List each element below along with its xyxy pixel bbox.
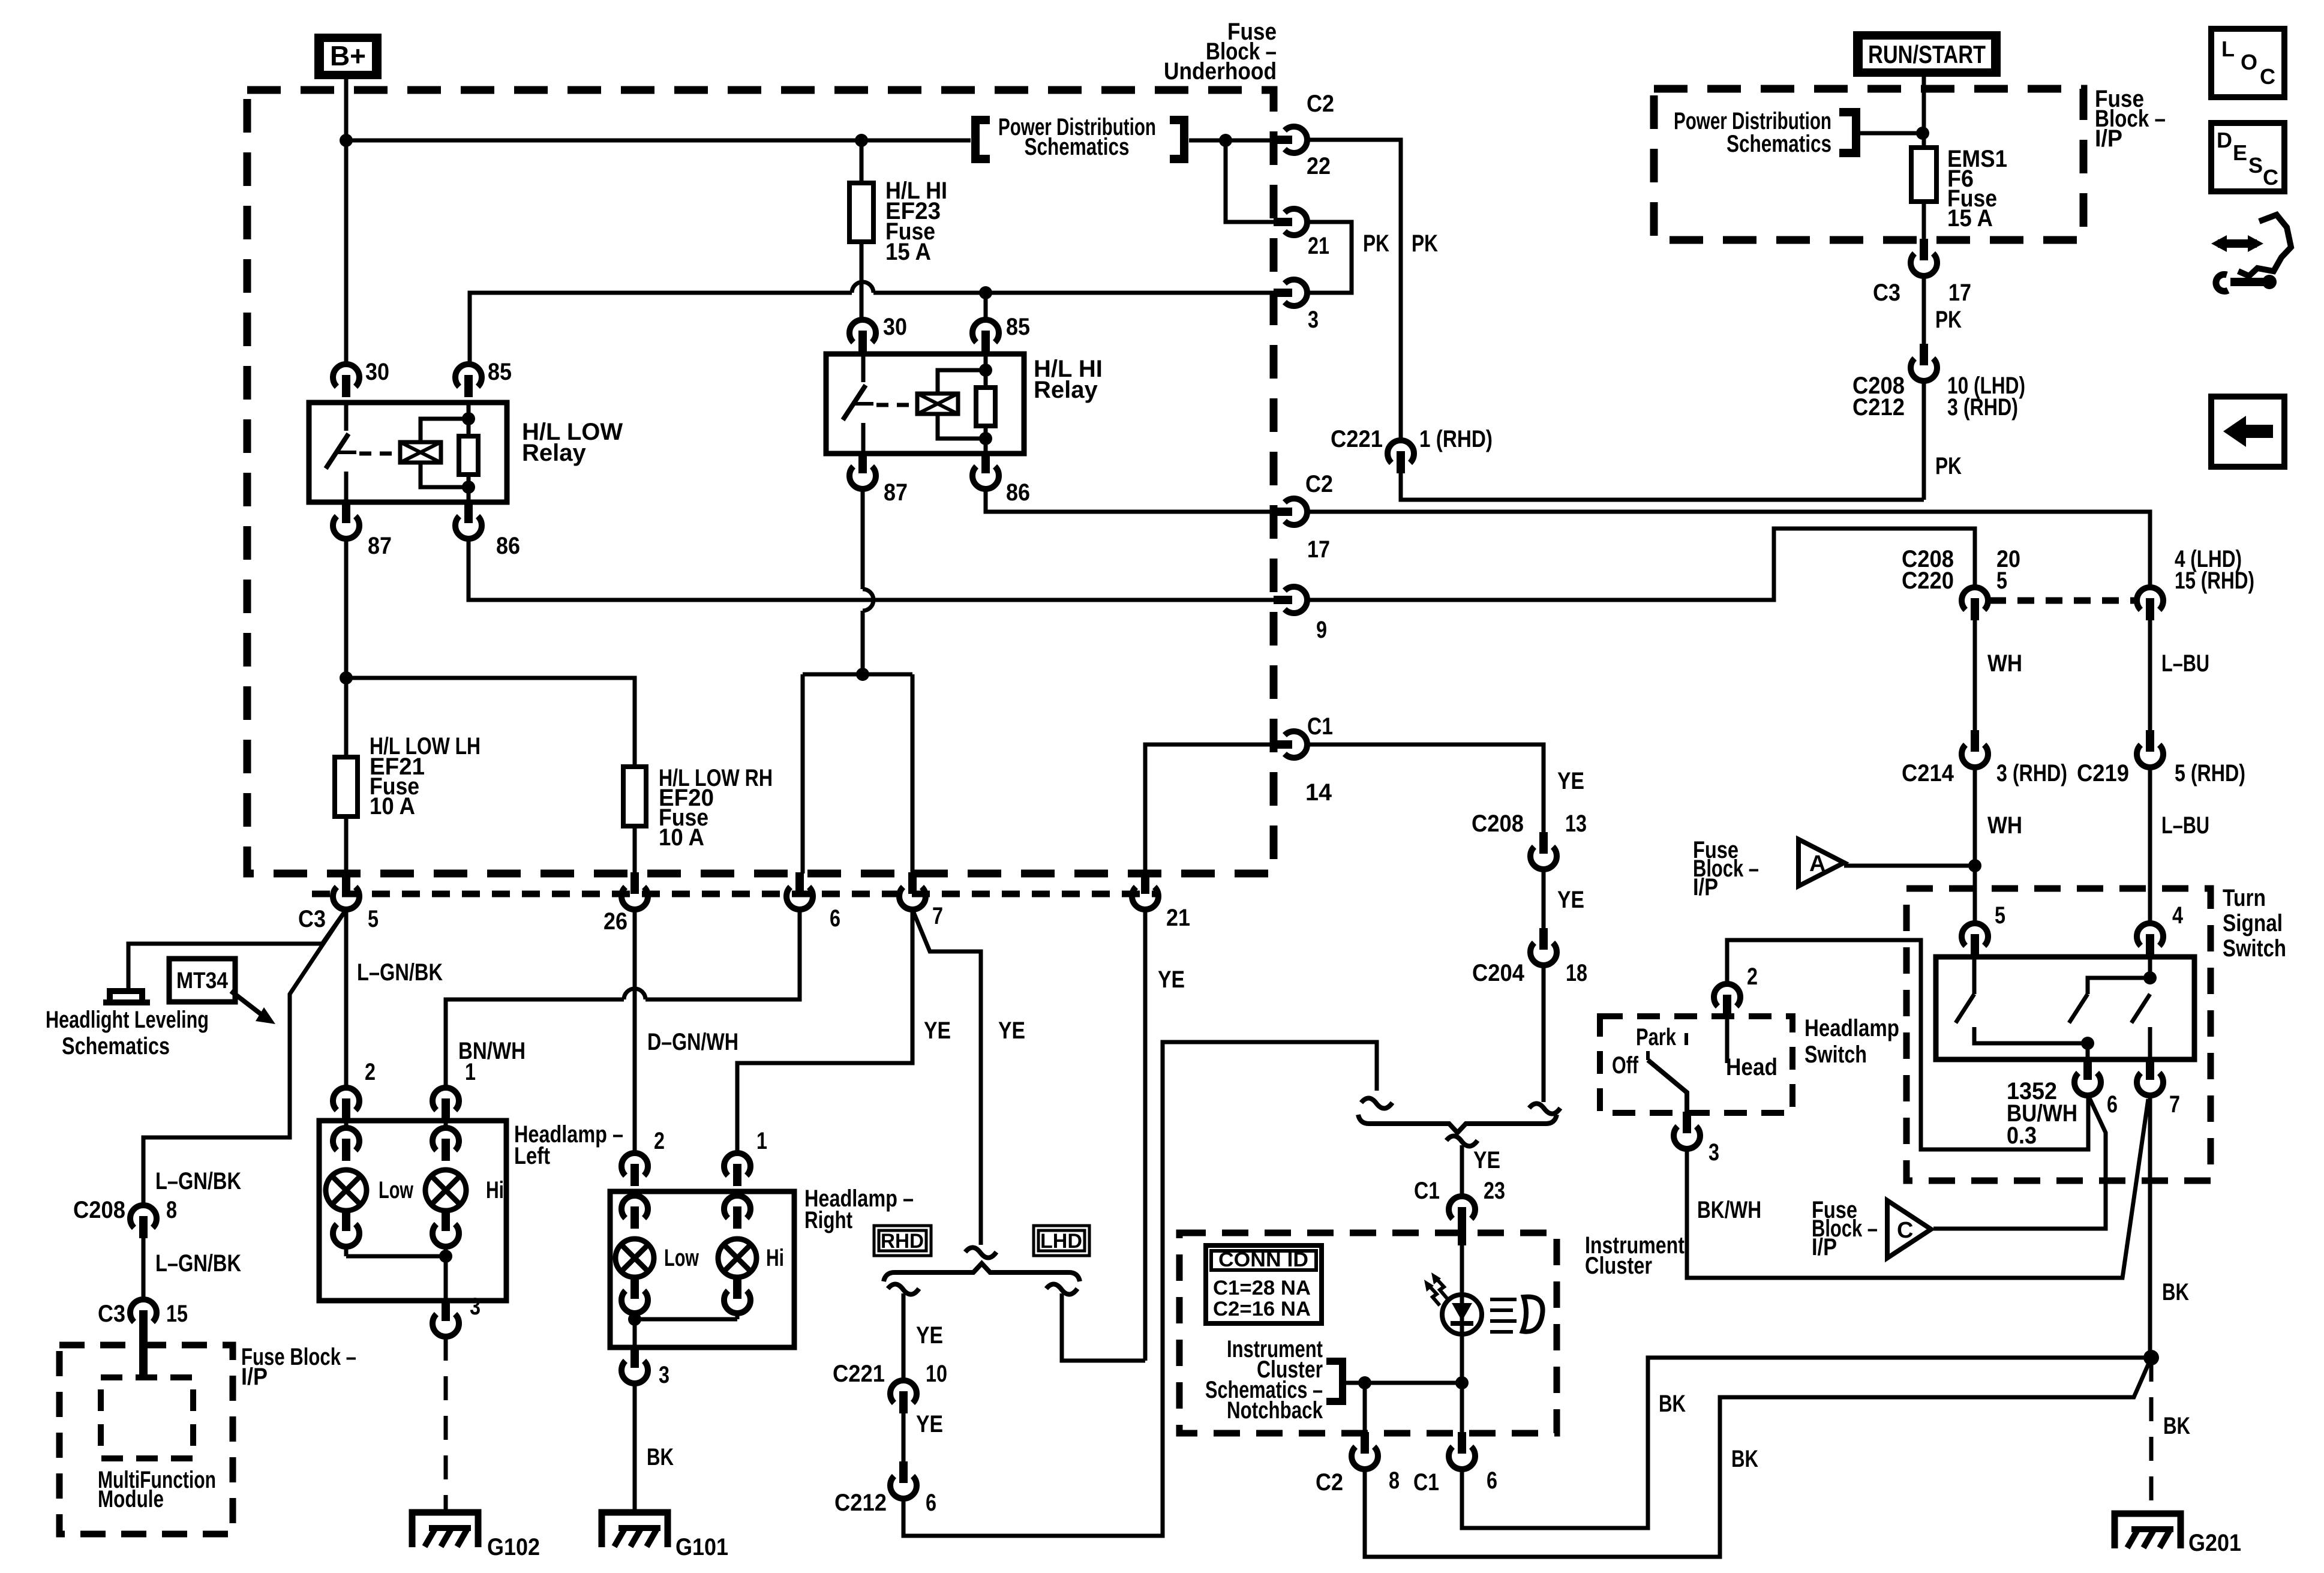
LED arrows: [1435, 1277, 1447, 1298]
svg-text:23: 23: [1484, 1178, 1505, 1204]
svg-text:30: 30: [365, 359, 389, 385]
svg-text:7: 7: [932, 903, 943, 929]
svg-text:1: 1: [465, 1059, 476, 1085]
wire C208/13 to C204/18: [1542, 869, 1546, 929]
relay H/L HI resistor: [984, 354, 988, 454]
bracket power distribution (I/P): [1839, 112, 1856, 153]
svg-text:3: 3: [659, 1362, 669, 1388]
brace RHD/LHD option (headlamp feed): [884, 1263, 1080, 1281]
svg-text:87: 87: [884, 479, 908, 506]
svg-text:C1=28 NA: C1=28 NA: [1213, 1277, 1311, 1299]
svg-text:LHD: LHD: [1040, 1230, 1082, 1253]
wire WH to C214: [1973, 620, 1977, 731]
svg-text:WH: WH: [1987, 650, 2022, 677]
wire C2 pin9 to connector 20/5: [1308, 529, 1975, 600]
svg-text:D: D: [2217, 128, 2232, 152]
svg-text:PK: PK: [1935, 307, 1962, 333]
wire YE row pin 7 to headlamp right pin 1: [737, 909, 912, 1152]
svg-text:Notchback: Notchback: [1227, 1397, 1323, 1424]
svg-text:Low: Low: [664, 1245, 699, 1271]
svg-text:Head: Head: [1726, 1054, 1777, 1080]
svg-text:YE: YE: [1158, 966, 1185, 993]
svg-text:Right: Right: [804, 1207, 852, 1233]
connector C208 pin 13: [1539, 832, 1548, 854]
hook LHD branch: [1046, 1284, 1077, 1294]
wire headlamp left common: [346, 1256, 446, 1301]
fuse block I/P dashed box (top right): [1654, 89, 2083, 240]
svg-text:YE: YE: [916, 1411, 943, 1437]
svg-text:C220: C220: [1902, 568, 1954, 594]
svg-text:6: 6: [1487, 1467, 1497, 1494]
wire pin6 to fuse block C: [1933, 1095, 2106, 1229]
svg-text:6: 6: [830, 905, 840, 932]
svg-text:3: 3: [1709, 1139, 1719, 1166]
connector H/L LOW relay pin 30: [333, 364, 359, 387]
svg-text:Hi: Hi: [766, 1245, 784, 1271]
connector H/L HI relay pin 30: [849, 320, 876, 343]
wire H/L LOW 86 to C2 pin 9: [469, 539, 1275, 600]
svg-text:10 A: 10 A: [659, 824, 704, 851]
multifunction module dashed box: [101, 1377, 193, 1458]
relay H/L LOW switch contact: [344, 403, 349, 431]
turn signal switch contacts: [1956, 957, 2088, 1059]
node B+ junction: [340, 134, 353, 147]
headlamp right box: [610, 1191, 794, 1347]
connector headlamp left pin 2: [333, 1088, 359, 1110]
relay H/L LOW coil: [400, 442, 441, 463]
svg-text:6: 6: [2107, 1091, 2118, 1118]
svg-text:BK: BK: [1659, 1391, 1686, 1417]
svg-text:L–BU: L–BU: [2161, 650, 2209, 677]
node H/L HI 87 split: [856, 668, 869, 681]
svg-text:BK/WH: BK/WH: [1697, 1197, 1761, 1223]
svg-text:BK: BK: [2163, 1413, 2190, 1439]
high beam icon: [1490, 1299, 1517, 1332]
relay H/L LOW box: [309, 403, 507, 502]
svg-text:18: 18: [1566, 960, 1587, 986]
connector row pin 7: [908, 872, 917, 894]
DESC reference box: [2211, 123, 2284, 191]
svg-text:MT34: MT34: [176, 968, 228, 993]
svg-text:D–GN/WH: D–GN/WH: [647, 1029, 738, 1055]
wire BN/WH from row pin 6 to headlamp left pin 1: [446, 909, 800, 1087]
svg-text:C1: C1: [1307, 713, 1333, 740]
wire H/L LOW 87 to fuses EF21/EF20: [344, 539, 349, 757]
svg-text:15 A: 15 A: [885, 239, 931, 265]
svg-text:Turn: Turn: [2223, 885, 2266, 911]
svg-text:2: 2: [1747, 963, 1758, 990]
svg-text:30: 30: [883, 314, 907, 340]
connector C1 pin 23: [1449, 1196, 1475, 1219]
relay H/L HI box: [826, 354, 1024, 454]
relay H/L HI coil: [917, 394, 958, 414]
svg-text:Schematics: Schematics: [1025, 134, 1130, 160]
turn signal switch inner box: [1936, 957, 2194, 1059]
connector headlamp switch pin 3: [1683, 1112, 1691, 1133]
node BK ground junction: [2143, 1350, 2159, 1365]
wire C2 pin22 PK to C221: [1308, 140, 1401, 440]
svg-text:Off: Off: [1612, 1052, 1639, 1079]
svg-text:C3: C3: [298, 906, 326, 932]
svg-text:C3: C3: [1873, 280, 1900, 306]
LHD reference box: [1034, 1226, 1089, 1256]
svg-text:Headlight Leveling: Headlight Leveling: [46, 1007, 209, 1033]
svg-text:C2: C2: [1307, 91, 1334, 117]
connector headlamp right pin 2: [621, 1153, 648, 1176]
svg-text:3: 3: [470, 1293, 481, 1320]
svg-text:C221: C221: [833, 1361, 885, 1387]
instrument cluster dashed box: [1179, 1233, 1557, 1433]
ground G101: [602, 1512, 668, 1547]
wire bracket to fuse block pin 22: [1189, 139, 1275, 143]
svg-text:BK: BK: [2162, 1279, 2189, 1305]
wire EF21 to connector row pin 5: [344, 816, 349, 873]
wire to H/L HI relay pin 85: [984, 293, 988, 319]
node LED splice: [1455, 1376, 1469, 1389]
wire brace to C1 pin 23: [1460, 1145, 1464, 1196]
connector H/L LOW relay pin 85: [455, 364, 482, 387]
wire C3 pin5 leveling branch diagonals: [128, 909, 346, 989]
connector C2 pin 21: [1274, 218, 1292, 226]
svg-text:I/P: I/P: [1812, 1234, 1837, 1260]
svg-text:4: 4: [2172, 902, 2184, 929]
svg-text:Cluster: Cluster: [1585, 1253, 1652, 1279]
connector C3 pin 17 (I/P): [1920, 239, 1928, 260]
svg-text:26: 26: [603, 908, 627, 935]
svg-text:22: 22: [1307, 153, 1331, 179]
relay H/L HI switch contact: [861, 354, 866, 382]
fuse EMS1 F6 15A: [1911, 148, 1936, 202]
wire PK loop pin21 to pin3 outside: [1308, 222, 1352, 293]
ground G102: [412, 1512, 478, 1547]
svg-text:15 (RHD): 15 (RHD): [2175, 568, 2254, 594]
svg-text:PK: PK: [1363, 230, 1389, 257]
connector C1 pin 14: [1274, 740, 1292, 749]
wire PK down to junction with C221 branch: [1922, 381, 1926, 500]
wire headlamp right common: [635, 1319, 737, 1347]
wire to fuse block pin 21: [1226, 140, 1275, 222]
svg-text:C212: C212: [1852, 394, 1905, 421]
MT34 arrow: [231, 991, 262, 1015]
connector C219 pin 5 (RHD): [2146, 730, 2154, 752]
svg-text:14: 14: [1305, 779, 1332, 806]
wire B+ bus to power distribution bracket: [346, 139, 971, 143]
headlamp switch head contact: [1725, 1016, 1730, 1063]
svg-text:1 (RHD): 1 (RHD): [1419, 426, 1493, 452]
svg-text:Park: Park: [1636, 1024, 1677, 1050]
fuse block underhood dashed box: [247, 90, 1274, 873]
headlamp right low bulb leads: [633, 1191, 637, 1319]
fuse EF21 H/L LOW LH 10A: [335, 757, 358, 816]
svg-text:I/P: I/P: [1693, 874, 1718, 900]
wire C1 pin14 to C208 pin 13: [1308, 745, 1544, 833]
fuse EF20 H/L LOW RH 10A: [623, 767, 646, 826]
triangle C fuse block I/P: [1887, 1200, 1931, 1258]
svg-text:Signal: Signal: [2223, 910, 2283, 936]
break squiggle C204 branch: [1529, 1103, 1560, 1113]
connector H/L HI relay pin 86: [981, 452, 990, 473]
node EF23 tap: [855, 134, 868, 147]
connector C2 pin 3: [1274, 289, 1292, 297]
node 87 split: [340, 671, 353, 685]
wire C208/8 to C3/15: [142, 1238, 146, 1299]
svg-text:15: 15: [166, 1301, 188, 1327]
svg-text:L–BU: L–BU: [2161, 812, 2209, 839]
svg-text:Hi: Hi: [486, 1177, 504, 1203]
wire C2 pin17 to connector 4/15: [1308, 512, 2150, 587]
bracket power distribution right: [1170, 120, 1184, 159]
svg-text:10 A: 10 A: [370, 793, 415, 819]
wire EMS1 to C3/17: [1922, 202, 1926, 240]
back arrow box: [2211, 397, 2284, 467]
svg-text:PK: PK: [1412, 230, 1438, 257]
connector C2 pin 17: [1274, 508, 1292, 516]
hook RHD branch: [888, 1284, 919, 1294]
connector C208/C212 pin 10/3: [1920, 344, 1928, 365]
wire headlamp left ground (dashed): [444, 1337, 448, 1509]
triangle A fuse block I/P: [1798, 839, 1844, 886]
svg-text:B+: B+: [330, 40, 366, 71]
svg-text:C212: C212: [834, 1490, 887, 1516]
wire bracket to C2 pin 8 drop: [1344, 1383, 1462, 1433]
connector headlamp left pin 1: [433, 1088, 459, 1110]
svg-text:CONN ID: CONN ID: [1218, 1248, 1308, 1271]
relay H/L LOW resistor: [467, 403, 471, 502]
svg-text:YE: YE: [916, 1322, 943, 1349]
svg-text:C214: C214: [1902, 760, 1954, 786]
svg-text:C: C: [2260, 64, 2275, 89]
svg-text:Relay: Relay: [1034, 377, 1098, 403]
wire LHD branch loop to pin 21 wire: [1062, 1293, 1145, 1361]
svg-text:C2: C2: [1305, 471, 1333, 497]
wire BK/WH to turn signal pin 7: [1687, 1099, 2148, 1278]
svg-text:85: 85: [488, 359, 512, 385]
svg-text:Underhood: Underhood: [1164, 58, 1277, 85]
svg-text:Switch: Switch: [1804, 1041, 1867, 1068]
connector C3 pin 5: [342, 872, 350, 894]
svg-text:I/P: I/P: [241, 1364, 268, 1390]
wire EF23 to H/L HI relay pin 30: [860, 242, 864, 319]
svg-text:BK: BK: [647, 1444, 674, 1470]
wire YE row pin 21 down: [1143, 909, 1148, 1361]
svg-text:C1: C1: [1413, 1469, 1439, 1496]
svg-text:87: 87: [368, 533, 392, 559]
brace option (instrument cluster feed): [1358, 1115, 1557, 1133]
wire C2/8 BK to ground junction: [1365, 1358, 2151, 1557]
svg-text:L: L: [2221, 37, 2235, 61]
wire L-BU to turn signal pin 4: [2148, 767, 2152, 923]
svg-text:Relay: Relay: [522, 440, 586, 466]
headlamp right hi bulb leads: [735, 1191, 740, 1319]
connector C2 pin 9: [1274, 596, 1292, 604]
hop arc BN/WH over D-GN/WH: [624, 989, 645, 999]
svg-text:5: 5: [1995, 902, 2005, 929]
RUN/START power terminal: [1853, 31, 2001, 77]
wire LED to splice: [1460, 1334, 1464, 1433]
relay H/L HI coil link (dashed): [876, 403, 917, 407]
svg-text:S: S: [2248, 153, 2263, 178]
wire EF23 fuse drop: [860, 140, 864, 183]
svg-text:O: O: [2241, 50, 2257, 74]
connector row pin 6: [795, 872, 804, 894]
wire BK dashed to G201: [2149, 1358, 2154, 1511]
svg-text:Schematics: Schematics: [62, 1033, 170, 1059]
svg-text:3: 3: [1308, 307, 1319, 333]
wire EF20 to connector row pin 26: [633, 826, 637, 873]
svg-text:Schematics: Schematics: [1727, 131, 1831, 157]
break squiggle option line: [965, 1247, 996, 1257]
svg-text:Module: Module: [98, 1486, 164, 1512]
break squiggle instrument loop branch: [1361, 1098, 1392, 1108]
svg-text:17: 17: [1948, 280, 1971, 306]
svg-text:YE: YE: [924, 1017, 951, 1044]
headlamp switch off contact and wiper: [1646, 1051, 1650, 1060]
svg-text:C: C: [1897, 1218, 1913, 1243]
connector C212 pin 6: [899, 1461, 908, 1483]
node pin22/21 tap: [1219, 134, 1232, 147]
svg-text:YE: YE: [1557, 887, 1584, 913]
wire C204/18 down to option break: [1542, 965, 1546, 1102]
headlamp switch park contact: [1685, 1033, 1688, 1045]
wire C221 to RUN/START PK junction: [1401, 473, 1924, 500]
svg-text:9: 9: [1316, 617, 1327, 643]
wire bracket to run/start tap: [1858, 131, 1923, 136]
svg-text:5 (RHD): 5 (RHD): [2175, 760, 2245, 786]
svg-text:17: 17: [1307, 536, 1330, 563]
headlight leveling off-page symbol: [103, 991, 150, 1002]
connector C1 pin 6: [1458, 1432, 1466, 1454]
wire RUN/START to fuse EMS1: [1922, 77, 1926, 148]
service icon: [2238, 215, 2291, 276]
wire bus from C2 pin 3 to relay coils: [470, 293, 1275, 364]
node coil feed H/L HI: [979, 286, 992, 299]
svg-text:5: 5: [1996, 568, 2007, 594]
connector C221 pin 10: [890, 1380, 917, 1403]
svg-text:C3: C3: [98, 1301, 125, 1327]
svg-text:L–GN/BK: L–GN/BK: [155, 1250, 241, 1277]
svg-text:C: C: [2263, 165, 2278, 190]
LOC reference box: [2211, 29, 2284, 97]
connector headlamp right pin 1: [724, 1153, 750, 1176]
connector headlamp switch pin 2: [1714, 984, 1740, 1007]
wire WH to turn signal pin 5: [1973, 767, 1977, 923]
connector turn signal pin 4: [2137, 923, 2163, 946]
relay H/L HI coil leads: [938, 370, 986, 439]
svg-text:21: 21: [1166, 905, 1190, 931]
wire triangle A to WH junction: [1844, 864, 1975, 868]
fuse block I/P dashed box (bottom left): [59, 1345, 233, 1534]
hop arc bus over EF23 wire: [852, 282, 873, 293]
B+ power terminal: [314, 34, 382, 79]
node bracket splice: [1358, 1376, 1371, 1389]
svg-text:5: 5: [368, 906, 379, 932]
svg-text:3 (RHD): 3 (RHD): [1996, 760, 2067, 786]
connector row pin 26: [630, 872, 639, 894]
wire PK to C208/C212: [1922, 276, 1926, 345]
svg-text:86: 86: [496, 533, 520, 559]
svg-text:0.3: 0.3: [2007, 1122, 2037, 1149]
wire pin7 branch diagonal to option line: [912, 909, 981, 1245]
svg-text:C208: C208: [1472, 810, 1524, 837]
connector row pin 21: [1141, 872, 1149, 894]
svg-text:PK: PK: [1935, 453, 1962, 479]
svg-text:Headlamp: Headlamp: [1804, 1015, 1899, 1041]
svg-text:C204: C204: [1472, 960, 1525, 986]
svg-text:A: A: [1809, 851, 1825, 876]
connector C3 pin 15: [130, 1299, 157, 1322]
wire C1/6 BK to ground junction: [1462, 1358, 2151, 1528]
ground G201: [2115, 1514, 2181, 1548]
connector turn signal pin 5: [1962, 923, 1988, 946]
wire C221/10 to C212/6: [902, 1413, 906, 1463]
bracket instrument cluster schematics: [1326, 1361, 1343, 1401]
connector H/L LOW relay pin 87: [342, 502, 350, 523]
svg-text:I/P: I/P: [2095, 125, 2122, 152]
svg-text:C1: C1: [1414, 1178, 1440, 1204]
svg-text:8: 8: [166, 1197, 177, 1223]
hook below instrument brace: [1446, 1136, 1478, 1146]
wire C212/6 loop to instrument brace: [903, 1042, 1377, 1536]
svg-text:2: 2: [365, 1059, 376, 1085]
svg-text:YE: YE: [998, 1017, 1025, 1044]
wire RHD branch to C221 pin 10: [902, 1293, 906, 1380]
wire H/L HI 87 down with hop over pin9 line: [861, 489, 865, 674]
connector turn signal pin 6: [2083, 1058, 2092, 1080]
connector C204 pin 18: [1539, 928, 1548, 950]
svg-text:YE: YE: [1557, 768, 1584, 794]
bracket power distribution left: [975, 120, 990, 159]
connector H/L HI relay pin 87: [858, 452, 867, 473]
headlamp left hi bulb leads: [444, 1121, 448, 1256]
wire C1 pin14 inside to row pin 21: [1145, 745, 1275, 873]
connector headlamp left pin 3: [442, 1299, 450, 1321]
connector pair dashed link: [1989, 598, 2136, 604]
svg-text:C221: C221: [1331, 426, 1383, 452]
connector row dashed line: [312, 891, 1158, 897]
svg-text:Left: Left: [514, 1143, 550, 1169]
wire 87 split to row pins 6 and 7: [803, 674, 912, 873]
svg-text:3 (RHD): 3 (RHD): [1947, 394, 2018, 421]
svg-text:86: 86: [1006, 479, 1030, 506]
headlamp left box: [319, 1121, 506, 1301]
fuse EF23 H/L HI 15A: [849, 183, 873, 242]
CONN ID table: [1206, 1245, 1322, 1323]
svg-text:21: 21: [1308, 233, 1329, 259]
svg-text:C2=16 NA: C2=16 NA: [1213, 1298, 1311, 1320]
svg-text:YE: YE: [1473, 1147, 1500, 1173]
high beam indicator LED: [1442, 1295, 1482, 1334]
connector C2 pin 8: [1361, 1432, 1369, 1454]
hop arc 87 wire over pin 9 line: [863, 589, 873, 611]
connector C221 pin 1 (RHD): [1388, 440, 1414, 463]
headlamp left low bulb leads: [344, 1121, 349, 1256]
svg-text:G102: G102: [487, 1534, 540, 1560]
svg-text:RHD: RHD: [881, 1230, 924, 1253]
svg-text:L–GN/BK: L–GN/BK: [155, 1168, 241, 1194]
wire C3 pin5 to headlamp left pin 2 (L-GN/BK): [344, 909, 349, 1087]
MT34 reference box: [169, 959, 235, 1002]
svg-text:6: 6: [926, 1490, 936, 1516]
svg-text:2: 2: [654, 1128, 665, 1154]
headlamp switch dashed box: [1600, 1016, 1792, 1113]
svg-text:85: 85: [1006, 314, 1030, 340]
connector C2 pin 22: [1274, 136, 1292, 144]
svg-text:L–GN/BK: L–GN/BK: [357, 959, 443, 986]
connector H/L HI relay pin 85: [972, 320, 999, 343]
wire D-GN/WH row pin 26 to headlamp right pin 2: [633, 909, 637, 1152]
connector H/L LOW relay pin 86: [464, 502, 473, 523]
wire C1/23 to indicator LED: [1460, 1245, 1464, 1295]
